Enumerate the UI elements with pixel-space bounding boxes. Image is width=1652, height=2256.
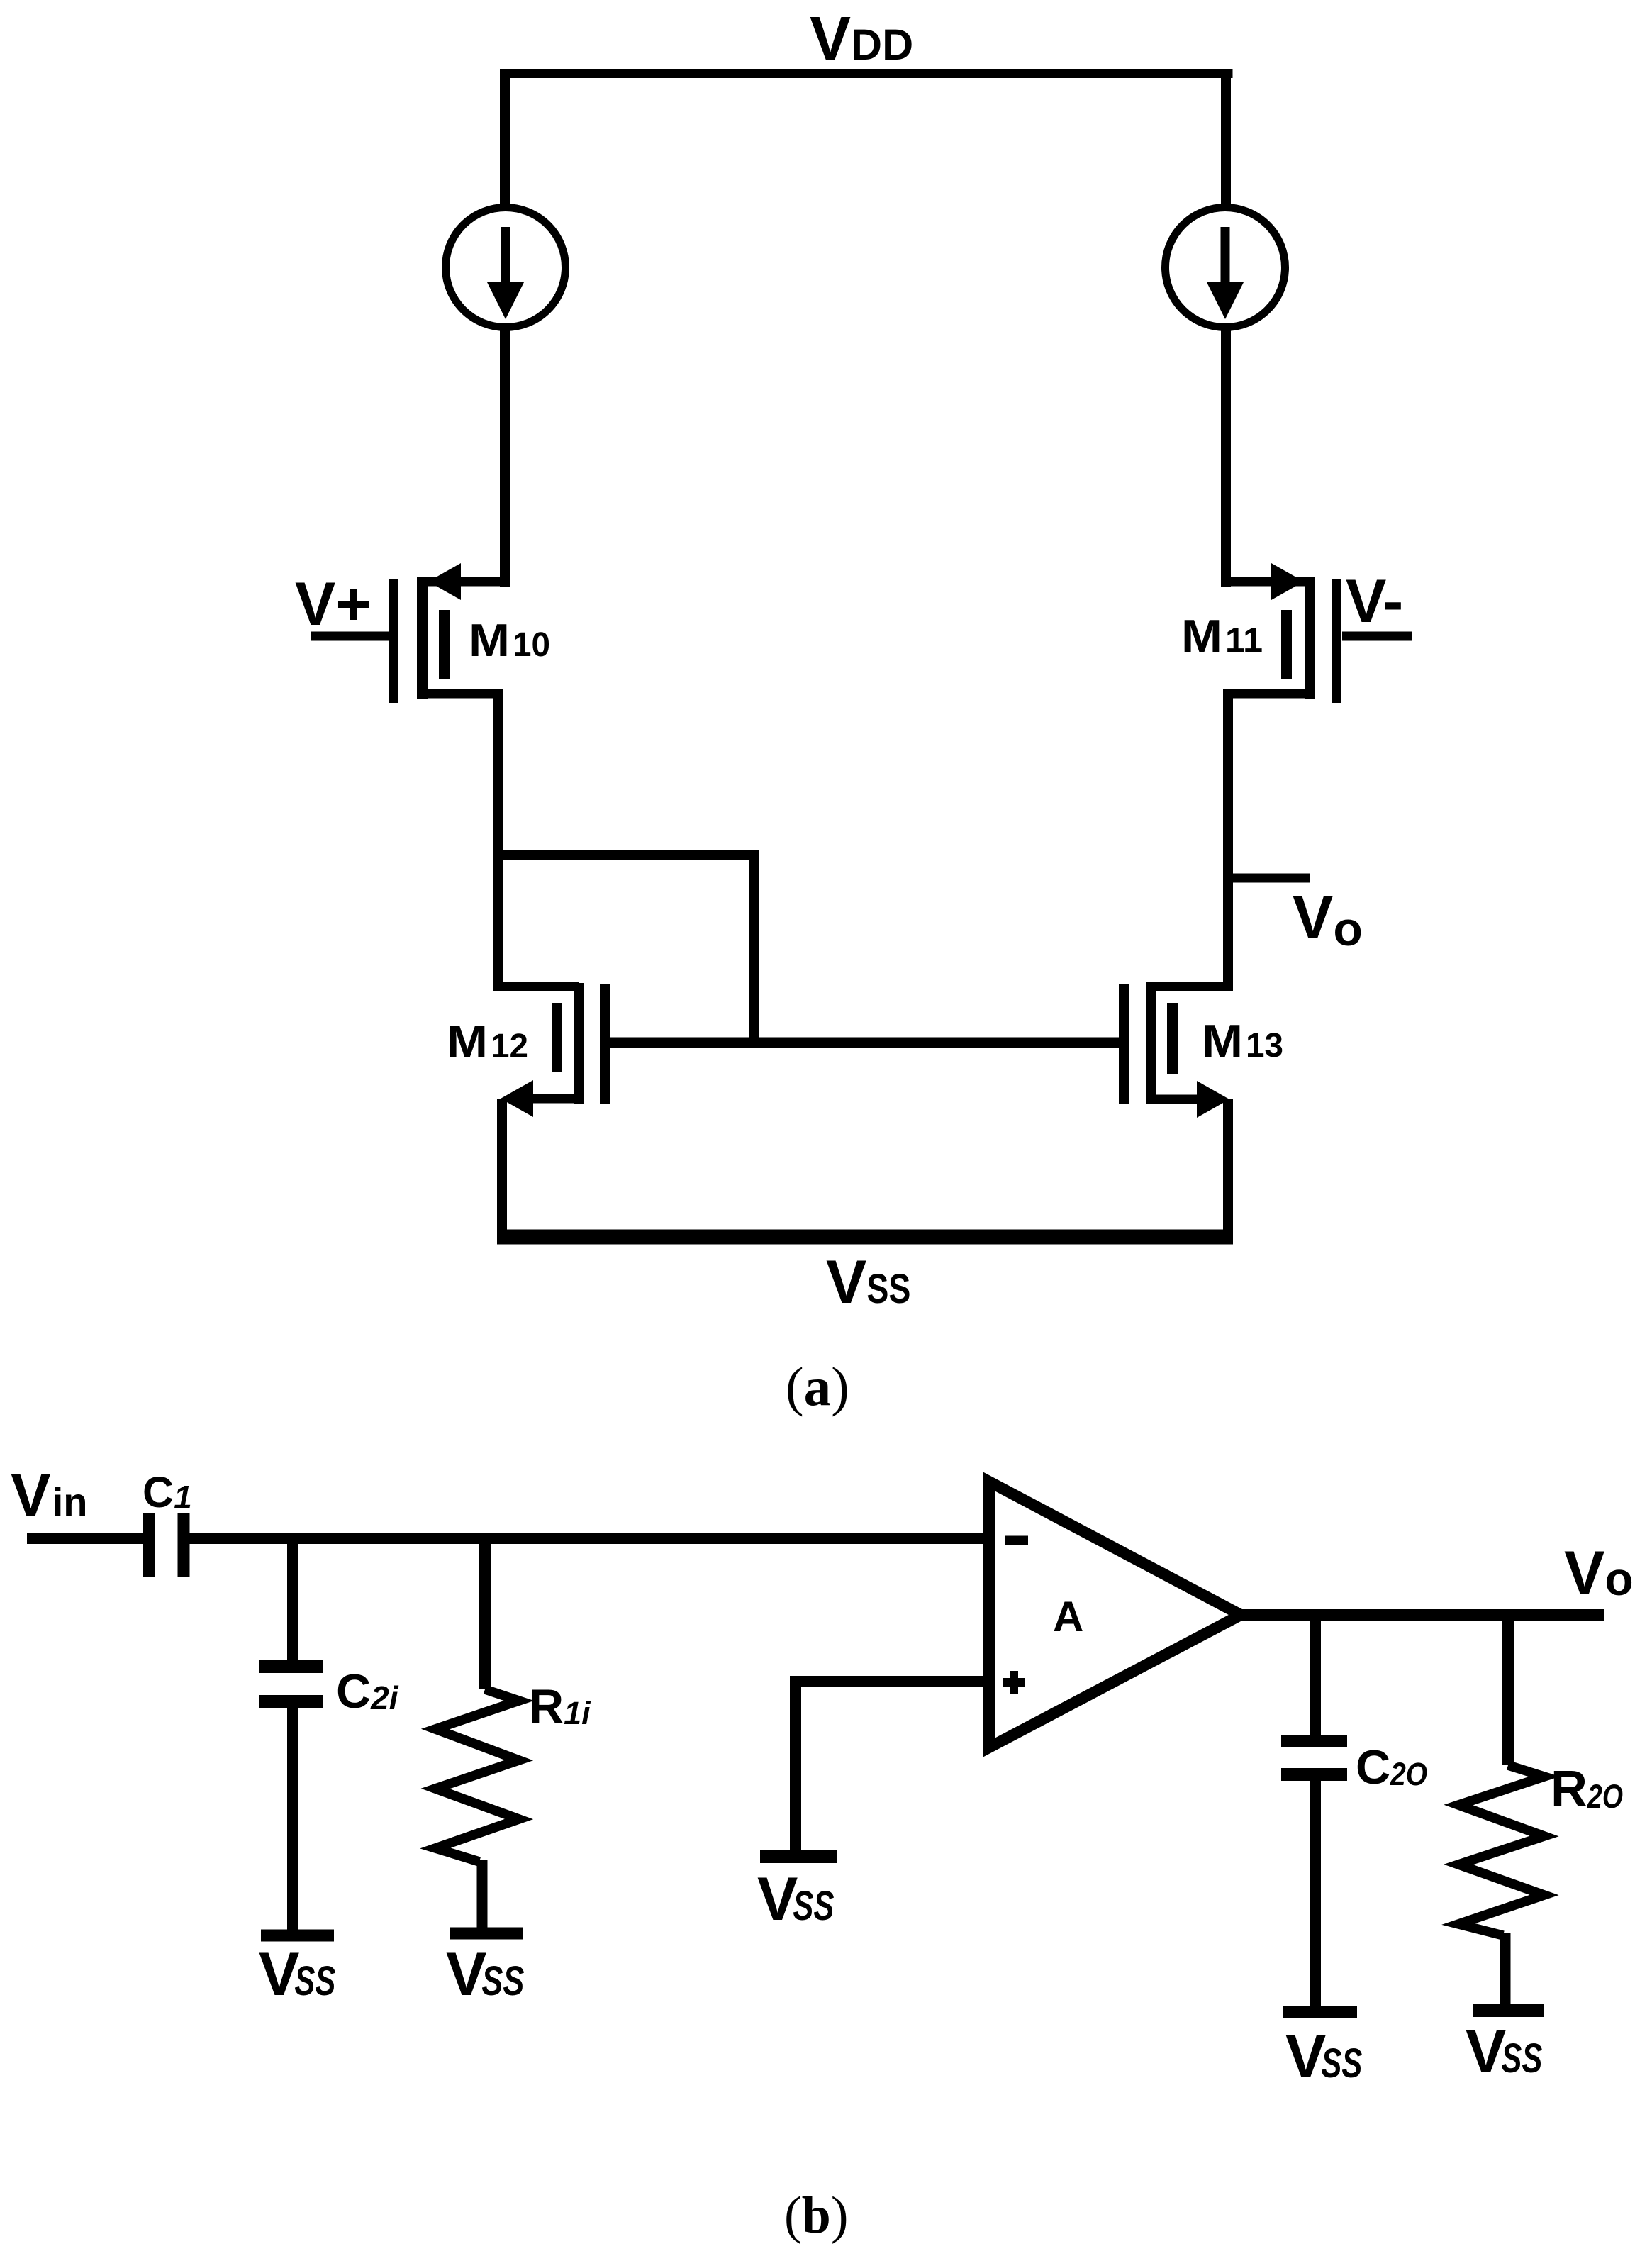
svg-text:(a): (a) (786, 1356, 849, 1417)
label VSS (826, 1248, 910, 1316)
ground VSS of R1i (446, 1933, 525, 2008)
ground VSS of R2o (1466, 2011, 1544, 2086)
caption (a) (786, 1356, 849, 1417)
label VDD (810, 4, 913, 73)
capacitor C2i (259, 1538, 399, 1930)
svg-text:V+: V+ (295, 570, 372, 638)
wire C1 to op-amp inverting input (189, 1533, 986, 1544)
wire M13 source to VSS rail (1223, 1099, 1233, 1237)
wire gate bus M12-M13 (610, 1038, 1119, 1048)
wire Vin to C1 (27, 1533, 143, 1544)
wire M10 drain to M12 drain (493, 689, 503, 991)
wire VDD to current source I1 (500, 69, 510, 210)
svg-text:V-: V- (1346, 567, 1403, 635)
wire drain-gate feedback horizontal (498, 850, 754, 860)
node V- (1342, 567, 1412, 636)
wire M12 source to VSS rail (497, 1099, 507, 1237)
resistor R2o (1458, 1615, 1623, 2004)
wire VDD to current source I2 (1221, 69, 1231, 210)
wire op-amp output to Vo (1241, 1609, 1604, 1621)
op-amp A (989, 1482, 1241, 1747)
ground VSS of op-amp (757, 1857, 837, 1933)
transistor M11 (1181, 563, 1337, 703)
transistor M12 (447, 983, 605, 1117)
capacitor C1 (143, 1468, 192, 1577)
transistor M10 (394, 563, 551, 703)
wire I1 to M10 source (500, 326, 510, 587)
label Vin (11, 1462, 87, 1529)
svg-text:A: A (1053, 1593, 1083, 1640)
current source I1 (446, 208, 566, 328)
node V+ (295, 570, 389, 638)
label Vo (1293, 884, 1363, 956)
node Vo stub (1233, 874, 1310, 883)
wire VDD rail (501, 69, 1233, 78)
caption (b) (784, 2186, 848, 2245)
label Vo output (1564, 1539, 1634, 1607)
wire I2 to M11 source (1221, 326, 1231, 587)
resistor R1i (435, 1538, 591, 1928)
VSS rail (497, 1230, 1233, 1245)
transistor M13 (1124, 982, 1284, 1118)
wire non-inverting input to VSS (796, 1682, 986, 1850)
capacitor C2o (1281, 1615, 1427, 2006)
current source I2 (1166, 208, 1285, 328)
svg-text:(b): (b) (784, 2186, 848, 2245)
wire M11 drain to M13 drain (1223, 689, 1233, 991)
wire drain-gate feedback vertical (749, 850, 759, 1048)
ground VSS of C2i (259, 1935, 336, 2008)
ground VSS of C2o (1283, 2012, 1363, 2091)
